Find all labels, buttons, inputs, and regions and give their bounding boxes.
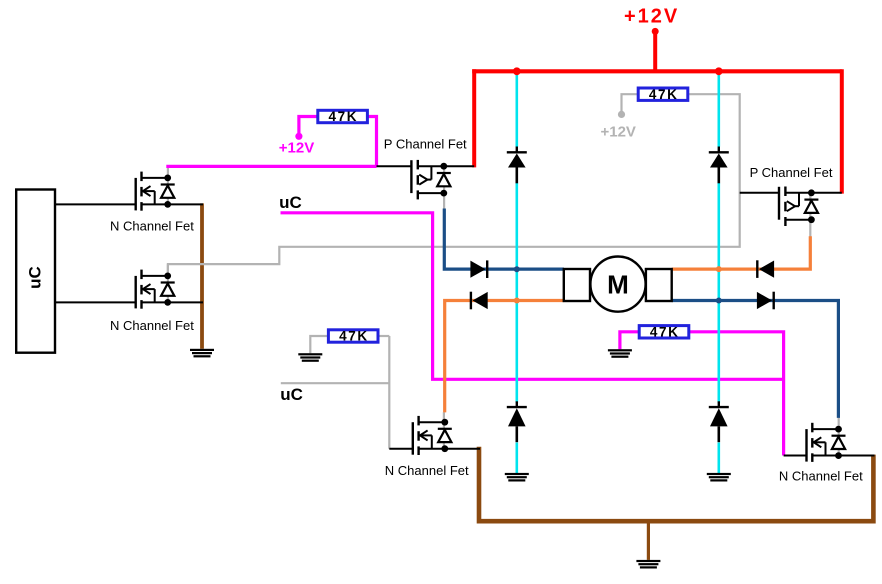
ground R4 (608, 349, 632, 358)
ground left clamp (505, 473, 529, 482)
node +12V supply dot (652, 28, 659, 35)
diode D4 (orange left rail) (points left) (471, 292, 488, 310)
motor M body (590, 257, 645, 312)
wire Q6 source to brown bus (814, 455, 875, 457)
wire brown left-bridge source to ground (200, 203, 204, 348)
transistor Q5 N-channel MOSFET (413, 416, 452, 455)
svg-text:uC: uC (280, 385, 303, 404)
wire cyan right clamp column (717, 71, 720, 146)
wire magenta Q1 drain to Q3 gate (166, 165, 376, 168)
svg-text:uC: uC (26, 266, 45, 289)
wire brown bottom ground bus (479, 447, 873, 521)
motor M terminal left brush (564, 269, 590, 301)
ground main (636, 560, 660, 569)
svg-text:N Channel Fet: N Channel Fet (110, 219, 194, 234)
wire uC pin to Q2 gate (54, 301, 136, 303)
transistor Q6 N-channel MOSFET (807, 423, 846, 462)
wire orange Q5 drain to motor left (bottom rail) (445, 301, 564, 413)
svg-text:N Channel Fet: N Channel Fet (385, 463, 469, 478)
wire gray R2 left lead to +12V (622, 94, 639, 112)
resistor R4 47K (639, 325, 689, 340)
wire red bus to Q4 source (840, 69, 844, 193)
wire red +12V feed (653, 31, 657, 71)
svg-text:N Channel Fet: N Channel Fet (110, 318, 194, 333)
svg-text:47K: 47K (339, 329, 369, 344)
wire gray R3 right lead down to Q5 gate (388, 336, 390, 449)
ground left bridge (190, 349, 214, 358)
wire Q1 source to brown rail (142, 203, 203, 205)
wire gray Q1 drain stub (167, 167, 169, 204)
wire Q4 gate lead (740, 192, 779, 194)
wire Q3 source to red (444, 165, 474, 167)
wire gray Q3 body stub (443, 166, 445, 209)
wire Q5 source to brown bus (419, 448, 480, 450)
svg-text:47K: 47K (329, 109, 359, 124)
resistor R3 47K (328, 329, 378, 344)
diode D8 (navy right rail) (points right) (757, 292, 774, 310)
diode D6 (right bottom clamp) (points up) (709, 401, 729, 442)
wire magenta R4 left lead to ground (620, 332, 639, 349)
svg-text:M: M (607, 270, 629, 300)
wire navy Q3 drain to motor left (top rail) (444, 209, 564, 270)
node orange junction right rail (716, 266, 722, 272)
svg-text:+12V: +12V (624, 5, 679, 27)
wire Q3 gate lead (377, 165, 412, 167)
diode D5 (left bottom clamp) (points up) (507, 401, 527, 442)
wire gray Q2 drain stub (167, 264, 169, 302)
diode D1 (left top clamp) (points up) (507, 147, 527, 184)
wire Q4 source to red (810, 192, 842, 194)
wire Q6 gate lead (784, 455, 808, 457)
transistor Q2 N-channel MOSFET (136, 270, 175, 309)
wire magenta R4 right lead down to Q6 gate (689, 332, 784, 456)
ground right clamp (707, 473, 731, 482)
transistor Q4 P-channel MOSFET (779, 187, 818, 227)
ground R3 (298, 353, 322, 362)
node magenta +12V dot (295, 133, 302, 140)
node navy junction right rail (716, 298, 722, 304)
diode D2 (right top clamp) (points up) (709, 147, 729, 184)
motor M terminal right brush (646, 269, 672, 301)
resistor R2 47K (638, 87, 688, 102)
node red bus junction right (715, 67, 723, 75)
wire navy Q6 drain to motor right (bottom rail) (672, 301, 839, 418)
node navy junction left rail (514, 266, 520, 272)
wire gray R3 leads (378, 335, 389, 337)
diode D3 (navy left rail) (points right) (470, 260, 487, 278)
wire brown ground drop (647, 521, 650, 560)
wire gray Q5 body stub (443, 412, 445, 449)
transistor Q3 P-channel MOSFET (411, 160, 450, 200)
transistor Q1 N-channel MOSFET (136, 172, 175, 211)
svg-text:+12V: +12V (600, 124, 635, 141)
wire gray net: Q2 drain to Q4 gate with pull-up R2 (168, 94, 740, 276)
node red bus junction left (513, 67, 521, 75)
node orange junction left rail (514, 298, 520, 304)
wire gray Q6 body stub (838, 418, 840, 456)
svg-text:P Channel Fet: P Channel Fet (750, 165, 833, 180)
wire gray uC drive to Q5 gate (281, 382, 390, 384)
resistor R1 47K (318, 109, 368, 124)
wire gray Q4 body stub (809, 193, 811, 237)
wire magenta R1 pull-up to Q3 gate (299, 117, 318, 135)
wire Q5 gate lead (389, 448, 413, 450)
svg-text:uC: uC (279, 193, 302, 212)
diode D7 (orange right rail) (points left) (757, 260, 774, 278)
wire cyan left clamp column (515, 71, 518, 146)
wire orange Q4 drain to motor right (top rail) (672, 236, 811, 269)
wire red +12V bus (472, 69, 842, 73)
svg-text:47K: 47K (650, 325, 680, 340)
svg-text:P Channel Fet: P Channel Fet (384, 137, 467, 152)
wire red bus to Q3 source (472, 69, 476, 167)
svg-text:+12V: +12V (279, 139, 314, 156)
svg-text:N Channel Fet: N Channel Fet (779, 469, 863, 484)
svg-text:47K: 47K (649, 87, 679, 102)
uC microcontroller block (16, 190, 55, 353)
node gray +12V dot (618, 111, 625, 118)
wire magenta uC drive to Q6 gate (281, 213, 784, 379)
wire uC pin to Q1 gate (54, 203, 136, 205)
wire Q2 source to brown rail (142, 301, 203, 303)
